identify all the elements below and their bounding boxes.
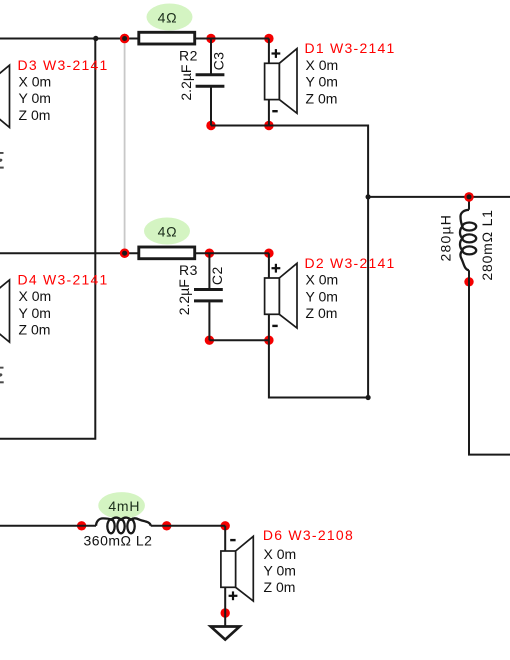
svg-text:C3: C3 — [211, 51, 227, 70]
terminal node R2 left — [120, 34, 129, 43]
capacitor C2 — [194, 290, 223, 301]
plus sign D1 — [272, 49, 281, 58]
svg-text:Z 0m: Z 0m — [306, 305, 338, 321]
terminal node C2 top — [205, 249, 214, 258]
loudspeaker D4 (partial at left edge) — [0, 280, 10, 342]
resistor R2 — [139, 32, 195, 44]
wire capacitor C3 vertical — [210, 39, 212, 126]
terminal node L1 top — [464, 192, 473, 201]
svg-text:D3 W3-2141: D3 W3-2141 — [18, 57, 109, 73]
svg-text:Y 0m: Y 0m — [306, 288, 338, 304]
wire gray node link — [124, 39, 126, 254]
terminal node D2 minus — [264, 336, 273, 345]
svg-text:280mΩ L1: 280mΩ L1 — [479, 209, 495, 280]
wire D2 bottom to junction — [269, 340, 368, 397]
wire D6 terminal stubs — [224, 526, 226, 627]
svg-text:X 0m: X 0m — [19, 288, 52, 304]
svg-text:X 0m: X 0m — [306, 272, 339, 288]
svg-text:Y 0m: Y 0m — [264, 562, 296, 578]
svg-text:Y 0m: Y 0m — [19, 305, 51, 321]
svg-text:D2 W3-2141: D2 W3-2141 — [305, 255, 396, 271]
resistor R3 — [139, 247, 195, 259]
svg-text:X 0m: X 0m — [306, 57, 339, 73]
wire D1 to mid junction — [269, 126, 368, 398]
wire junction to L1 and right edge — [368, 196, 510, 198]
loudspeaker D3 (partial at left edge) — [0, 65, 10, 127]
terminal node D6 minus — [221, 521, 230, 530]
svg-text:Z 0m: Z 0m — [306, 90, 338, 106]
wire row2 — [0, 252, 269, 254]
minus sign D1 — [272, 110, 277, 112]
minus sign D6 — [230, 539, 235, 541]
inductor L1 — [460, 210, 476, 270]
loudspeaker D1 — [265, 49, 297, 114]
node junction lower — [366, 395, 371, 400]
svg-text:D6 W3-2108: D6 W3-2108 — [263, 527, 354, 543]
svg-text:Y 0m: Y 0m — [19, 90, 51, 106]
terminal node D2 plus — [264, 249, 273, 258]
wire L1 stubs and down to right edge — [469, 197, 510, 455]
svg-text:280µH: 280µH — [438, 214, 454, 262]
node junction gray link bottom — [120, 249, 129, 258]
svg-text:2.2µF: 2.2µF — [176, 279, 192, 315]
svg-text:Z 0m: Z 0m — [19, 107, 51, 123]
wire bottom row — [0, 525, 225, 527]
svg-text:Z 0m: Z 0m — [264, 579, 296, 595]
svg-text:X 0m: X 0m — [19, 74, 52, 90]
svg-text:R3: R3 — [179, 262, 198, 278]
terminal node L1 bottom — [464, 277, 473, 286]
terminal node D1 minus — [264, 121, 273, 130]
wire row1 bottom (C3 to D1) — [211, 125, 269, 127]
value tag 4Ω (R2) ellipse — [147, 4, 193, 31]
node junction mid — [366, 194, 371, 199]
edge label fragment bottom — [0, 367, 4, 384]
svg-text:R2: R2 — [179, 48, 198, 64]
svg-text:X 0m: X 0m — [264, 546, 297, 562]
terminal node C3 bottom — [206, 121, 215, 130]
plus sign D6 — [229, 591, 238, 600]
wire row2 bottom (C2 to D2) — [209, 339, 269, 341]
loudspeaker D6 — [221, 536, 253, 601]
minus sign D2 — [272, 325, 277, 327]
value tag 4Ω (R3) ellipse — [144, 218, 190, 245]
plus sign D2 — [272, 264, 281, 273]
node junction L1 top — [464, 192, 473, 201]
svg-text:2.2µF: 2.2µF — [178, 65, 194, 101]
wire capacitor C2 vertical — [208, 253, 210, 340]
svg-text:Z 0m: Z 0m — [19, 322, 51, 338]
inductor L2 — [96, 518, 151, 534]
terminal node R3 left — [120, 249, 129, 258]
node junction gray link top — [120, 34, 129, 43]
edge label fragment top — [0, 152, 4, 169]
wire top row — [0, 38, 269, 40]
value tag 4mH (L2) ellipse — [98, 492, 145, 519]
terminal node L2 left — [77, 521, 86, 530]
svg-text:D1 W3-2141: D1 W3-2141 — [305, 40, 396, 56]
wire D1 terminal stubs — [268, 39, 270, 126]
capacitor C3 — [196, 75, 225, 86]
svg-text:D4 W3-2141: D4 W3-2141 — [18, 272, 109, 288]
ground — [211, 627, 240, 640]
svg-text:4Ω: 4Ω — [158, 223, 178, 239]
svg-text:4mH: 4mH — [108, 498, 140, 514]
terminal node D1 plus — [264, 34, 273, 43]
wire left return loop — [0, 39, 95, 439]
terminal node L2 right — [162, 521, 171, 530]
svg-text:Y 0m: Y 0m — [306, 74, 338, 90]
terminal node D6 plus — [221, 608, 230, 617]
node junction top-left — [93, 36, 98, 41]
svg-text:4Ω: 4Ω — [158, 9, 178, 25]
terminal node C3 top — [206, 34, 215, 43]
terminal node C2 bottom — [205, 336, 214, 345]
wire D2 terminal stubs — [268, 253, 270, 340]
svg-text:360mΩ L2: 360mΩ L2 — [84, 533, 153, 549]
svg-text:C2: C2 — [209, 266, 225, 285]
loudspeaker D2 — [265, 263, 297, 328]
